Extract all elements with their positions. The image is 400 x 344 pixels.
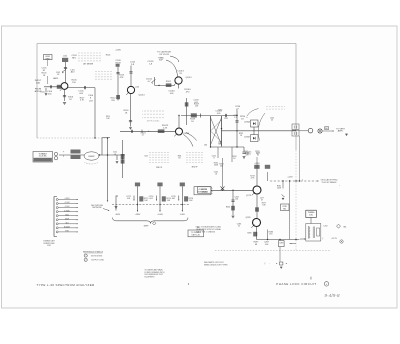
svg-text:L106: L106 [135,87,139,89]
svg-text:+225V: +225V [287,177,293,179]
svg-text:4.7: 4.7 [142,135,145,137]
svg-text:-100V: -100V [115,214,121,216]
svg-text:C66: C66 [204,145,207,147]
svg-text:NETWORK: NETWORK [92,207,102,209]
svg-text:SEL: SEL [218,144,222,146]
svg-text:.001: .001 [235,199,239,201]
svg-text:25-45 MC: 25-45 MC [39,156,48,158]
svg-text:9-4/9-8: 9-4/9-8 [324,293,340,299]
svg-text:INPUT W.R.T. CHASSIS: INPUT W.R.T. CHASSIS [196,230,216,233]
svg-text:J101: J101 [47,245,51,247]
svg-text:TYPE L-30 SPECTRUM ANALYZER: TYPE L-30 SPECTRUM ANALYZER [37,283,96,287]
svg-text:+100V: +100V [115,50,121,52]
svg-text:50Ω: 50Ω [36,82,40,84]
svg-text:Q1013: Q1013 [185,77,192,79]
svg-text:SEL: SEL [343,227,346,229]
svg-text:2: 2 [86,260,87,262]
svg-text:EQUIPMENT: EQUIPMENT [145,276,155,278]
svg-text:OF V1013: OF V1013 [159,54,170,56]
svg-text:-100V: -100V [65,206,71,208]
svg-text:+285V: +285V [135,214,141,216]
svg-text:BLANK: BLANK [64,225,71,228]
svg-text:C289: C289 [279,242,283,244]
svg-text:L104: L104 [41,92,45,94]
svg-text:C231: C231 [224,118,228,120]
svg-text:-100V: -100V [180,214,186,216]
svg-text:.001: .001 [127,198,131,200]
svg-text:8: 8 [213,158,214,160]
svg-text:3RD IF: 3RD IF [192,167,199,169]
svg-text:2ND IF: 2ND IF [156,167,163,169]
svg-text:SIG ROUTING: SIG ROUTING [91,255,103,257]
svg-text:PHASE LOCK CIRCUIT: PHASE LOCK CIRCUIT [276,282,316,286]
svg-text:GND: GND [65,214,70,216]
svg-text:SWP: SWP [144,225,149,227]
svg-text:39MC: 39MC [45,58,51,60]
svg-text:82: 82 [257,155,259,157]
svg-text:R104: R104 [106,55,111,57]
svg-text:D235A: D235A [244,121,250,124]
svg-text:R285: R285 [247,233,251,235]
svg-text:47: 47 [261,200,263,202]
svg-text:AMPL: AMPL [338,130,344,133]
svg-text:SEMICONDUCTOR TYPES: SEMICONDUCTOR TYPES [204,265,228,267]
svg-text:C107: C107 [89,101,93,103]
svg-text:+285V: +285V [64,198,70,200]
svg-text:1.5: 1.5 [234,117,237,119]
svg-text:SEL: SEL [325,128,328,130]
svg-text:Q1014: Q1014 [138,95,145,97]
svg-text:.01: .01 [215,174,218,176]
svg-text:R264: R264 [226,207,230,209]
svg-text:6.3VAC: 6.3VAC [64,209,71,212]
svg-text:TUNING: TUNING [201,191,208,193]
svg-text:+285V: +285V [254,163,260,165]
svg-text:1ST IF 21.4 MC: 1ST IF 21.4 MC [147,121,160,123]
svg-text:2.2K: 2.2K [163,127,168,129]
svg-text:L102: L102 [63,56,67,58]
svg-text:UNIT J-30: UNIT J-30 [192,235,200,237]
svg-text:SWEEP: SWEEP [88,156,95,158]
svg-text:25-45 MC RANGE: 25-45 MC RANGE [322,181,338,184]
svg-text:.001: .001 [171,198,175,200]
svg-text:C64: C64 [144,156,147,158]
svg-text:SUPPLY CONN: SUPPLY CONN [91,260,104,262]
svg-text:D235B: D235B [244,137,250,139]
svg-text:25: 25 [271,120,273,122]
svg-text:.001: .001 [149,198,153,200]
svg-text:1ST MIXER: 1ST MIXER [83,64,94,66]
svg-text:1: 1 [86,255,87,257]
svg-text:12: 12 [238,226,240,228]
svg-text:+100V: +100V [157,214,163,216]
svg-text:ADJ: ADJ [71,71,75,74]
svg-text:SEL: SEL [283,209,286,211]
svg-text:COIL: COIL [309,215,313,217]
svg-text:R1012: R1012 [166,81,171,83]
svg-text:AMPL: AMPL [53,77,58,80]
svg-text:+12.2V: +12.2V [331,238,338,240]
svg-text:L292: L292 [324,225,328,227]
svg-text:270: 270 [269,234,272,236]
svg-text:1-8: 1-8 [57,74,60,76]
svg-text:47K: 47K [120,77,124,79]
svg-text:+100V: +100V [64,202,70,204]
